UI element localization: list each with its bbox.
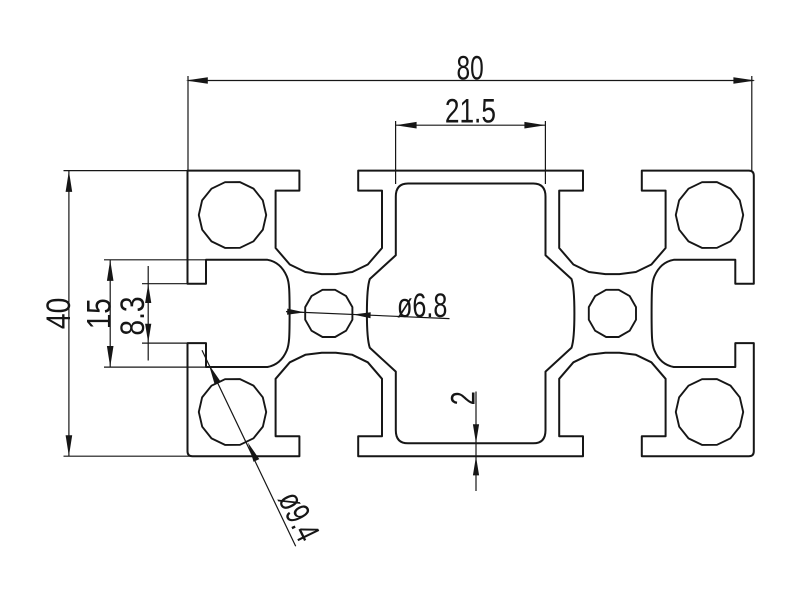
leader line D9.4	[202, 350, 296, 546]
hole D9.4 bottom-right	[676, 379, 743, 445]
arrowheads D9.4	[209, 364, 221, 383]
hole D6.8 left	[305, 290, 352, 337]
dimension 40 extension lines	[64, 171, 193, 457]
dimension 8.3 line	[147, 266, 149, 361]
hole D9.4 top-right	[676, 182, 743, 248]
hole D9.4 top-left	[199, 182, 266, 248]
svg-text:80: 80	[456, 50, 483, 88]
arrowheads 15	[107, 260, 114, 281]
arrowheads 80	[186, 77, 208, 84]
profile outer outline with T-slots	[188, 171, 754, 457]
dimension 21.5 line	[396, 124, 546, 126]
svg-text:2: 2	[445, 391, 483, 405]
arrowheads 40	[66, 171, 73, 192]
dimension 15 line	[109, 260, 111, 367]
arrowheads 8.3 (inside pointing out)	[145, 284, 151, 303]
arrowheads D6.8	[287, 309, 305, 315]
leader line D6.8	[286, 312, 450, 319]
svg-text:40: 40	[40, 298, 78, 329]
arrowheads 2 (outside)	[473, 424, 479, 443]
dimension 15 extension lines	[104, 260, 268, 367]
dimension 21.5 extension lines	[396, 121, 546, 184]
dimension 40 line	[68, 171, 70, 457]
hole D9.4 bottom-left	[199, 379, 266, 445]
hole D6.8 right	[589, 290, 636, 337]
svg-text:8.3: 8.3	[113, 296, 151, 335]
svg-text:21.5: 21.5	[445, 92, 496, 130]
dimension 8.3 extension lines	[142, 284, 206, 343]
dimension 2 line	[475, 392, 477, 492]
central cavity	[367, 184, 575, 444]
dimension 80 extension lines	[188, 76, 752, 171]
svg-text:15: 15	[80, 298, 118, 329]
dimension 80 line	[188, 80, 754, 82]
svg-text:ø6.8: ø6.8	[397, 288, 447, 326]
arrowheads 21.5	[396, 122, 417, 129]
